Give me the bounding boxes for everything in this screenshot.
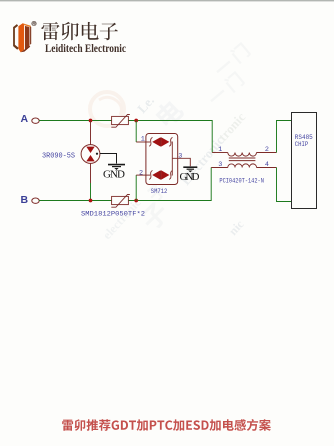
- wire GDT to GND1: [100, 154, 117, 164]
- watermark diagonal texts: [100, 93, 249, 242]
- SM712 TVS top: [149, 137, 172, 146]
- logo (R): [32, 21, 36, 25]
- ground GND1: [108, 165, 125, 170]
- svg-text:GND: GND: [103, 169, 125, 181]
- svg-text:Leiditech Electronic: Leiditech Electronic: [45, 41, 127, 55]
- svg-text:RS485: RS485: [295, 134, 313, 141]
- watermark CJK faint: [138, 41, 251, 232]
- wire B: PTC2 to choke corner: [128, 168, 211, 201]
- logo CJK 雷卯电子: [41, 22, 118, 40]
- choke top winding: [228, 153, 257, 157]
- GDT electrodes: [86, 147, 94, 153]
- svg-text:SM712: SM712: [151, 188, 168, 195]
- ground GND2: [183, 167, 197, 172]
- svg-text:B: B: [21, 194, 29, 206]
- PTC1 resistor: [111, 115, 130, 128]
- svg-text:CHIP: CHIP: [295, 141, 309, 148]
- logo icon: [13, 23, 31, 52]
- svg-text:1: 1: [141, 136, 145, 144]
- choke pin2 lead: [257, 152, 277, 154]
- GDT bottom wire: [90, 163, 92, 183]
- junction B2: [134, 199, 138, 203]
- svg-text:3: 3: [178, 152, 182, 160]
- junction B1: [89, 199, 93, 203]
- svg-text:2: 2: [265, 146, 269, 154]
- svg-text:PCI0420T-142-N: PCI0420T-142-N: [219, 177, 264, 184]
- terminal B: [32, 198, 39, 203]
- terminal A: [32, 118, 39, 123]
- svg-text:3: 3: [218, 161, 222, 169]
- SM712 pin3 lead: [172, 158, 190, 166]
- bottom slogan: [62, 419, 271, 431]
- ESD array SM712 box: [146, 134, 178, 185]
- choke core: [229, 157, 256, 159]
- RS485 chip box: [292, 113, 317, 209]
- watermark ring logo: [90, 92, 124, 126]
- GDT 3R090-5S circle: [81, 145, 100, 164]
- wire B horizontal: [39, 200, 112, 202]
- wire SM712 pin1 branch: [135, 121, 137, 143]
- top page border: [0, 0, 334, 1]
- junction A2: [134, 119, 138, 123]
- wire choke pin4 to chip: [277, 168, 292, 202]
- wire choke pin2 to chip: [277, 121, 292, 153]
- choke bottom winding: [228, 164, 257, 168]
- svg-text:1: 1: [218, 146, 222, 154]
- svg-text:3R090-5S: 3R090-5S: [42, 153, 75, 161]
- svg-text:SMD1812P050TF*2: SMD1812P050TF*2: [81, 211, 145, 218]
- SM712 internal to pin3: [171, 142, 174, 175]
- SM712 TVS bottom: [149, 171, 172, 180]
- wire A horizontal: [39, 120, 112, 122]
- PTC2 resistor: [111, 195, 130, 208]
- wire SM712 pin2 branch: [135, 175, 137, 200]
- junction A1: [89, 119, 93, 123]
- wire A: PTC1 to choke corner: [128, 121, 212, 153]
- svg-text:GND: GND: [180, 171, 200, 183]
- choke pin4 lead: [257, 167, 277, 169]
- SM712 pin1 lead: [136, 141, 150, 143]
- svg-text:A: A: [21, 113, 29, 125]
- SM712 pin2 lead: [136, 174, 150, 176]
- svg-text:2: 2: [139, 170, 143, 178]
- GDT third electrode dot: [96, 153, 98, 155]
- GDT branch wire top: [90, 121, 92, 146]
- svg-text:4: 4: [265, 161, 269, 169]
- choke pin3 lead: [211, 167, 228, 169]
- choke pin1 lead: [212, 152, 228, 154]
